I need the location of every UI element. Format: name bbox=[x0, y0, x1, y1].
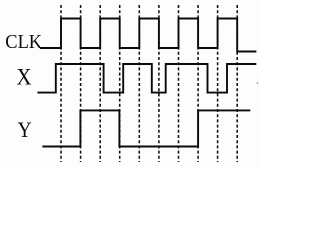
svg-text:Y: Y bbox=[18, 117, 32, 142]
svg-text:CLK: CLK bbox=[5, 31, 42, 53]
svg-text:X: X bbox=[17, 64, 32, 90]
